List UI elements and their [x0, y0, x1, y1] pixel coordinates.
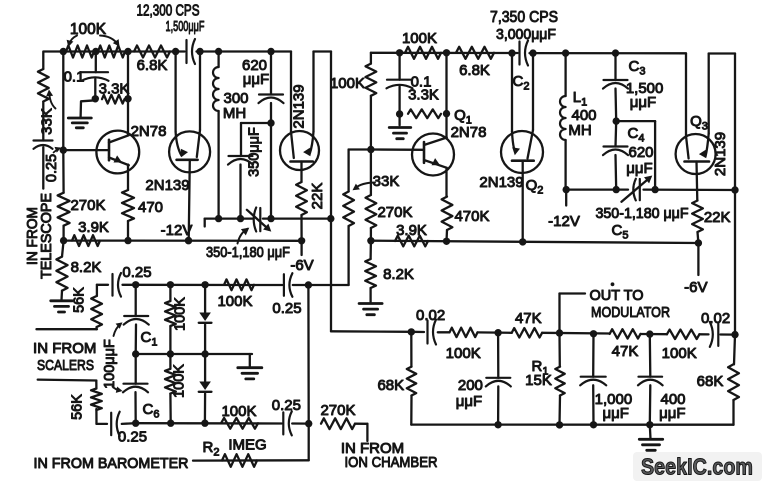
svg-text:2N139: 2N139 — [291, 84, 308, 128]
svg-text:33K: 33K — [373, 173, 400, 190]
svg-text:6.8K: 6.8K — [137, 57, 168, 74]
svg-text:6.8K: 6.8K — [459, 62, 490, 79]
svg-text:IN FROM BAROMETER: IN FROM BAROMETER — [34, 455, 189, 472]
svg-text:μμF: μμF — [626, 160, 652, 177]
svg-text:15K: 15K — [525, 372, 552, 389]
svg-text:μμF: μμF — [602, 405, 628, 422]
svg-text:3.9K: 3.9K — [78, 219, 109, 236]
svg-text:100K: 100K — [70, 21, 107, 38]
svg-text:470: 470 — [138, 199, 163, 216]
svg-text:56K: 56K — [72, 287, 88, 313]
svg-text:C3: C3 — [629, 58, 646, 78]
svg-text:2N139: 2N139 — [145, 177, 189, 194]
svg-text:470K: 470K — [454, 208, 489, 225]
svg-text:8.2K: 8.2K — [383, 266, 414, 283]
svg-text:1,500μμF: 1,500μμF — [166, 19, 205, 35]
svg-text:620: 620 — [628, 144, 653, 161]
svg-text:IMEG: IMEG — [228, 437, 266, 454]
svg-text:0.02: 0.02 — [416, 307, 445, 324]
svg-text:C2: C2 — [513, 73, 530, 93]
svg-text:-12V: -12V — [548, 213, 580, 230]
svg-text:SCALERS: SCALERS — [37, 357, 94, 374]
svg-text:C5: C5 — [612, 222, 629, 242]
svg-text:100μμF: 100μμF — [102, 339, 118, 389]
svg-text:3.3K: 3.3K — [408, 87, 439, 104]
svg-text:100K: 100K — [662, 345, 697, 362]
svg-text:μμF: μμF — [659, 405, 685, 422]
svg-text:-12V: -12V — [161, 222, 193, 239]
svg-text:MH: MH — [568, 122, 591, 139]
svg-text:0.25: 0.25 — [272, 397, 301, 414]
svg-text:350-1,180 μμF: 350-1,180 μμF — [206, 245, 290, 261]
svg-text:C4: C4 — [628, 125, 645, 145]
svg-text:8.2K: 8.2K — [71, 259, 102, 276]
svg-text:0.25: 0.25 — [44, 154, 60, 182]
svg-text:3.3K: 3.3K — [99, 81, 130, 98]
svg-text:R2: R2 — [203, 439, 220, 459]
svg-text:7,350 CPS: 7,350 CPS — [490, 9, 558, 26]
svg-text:270K: 270K — [70, 197, 105, 214]
svg-text:100K: 100K — [172, 364, 188, 398]
svg-text:0.25: 0.25 — [122, 264, 151, 281]
svg-text:68K: 68K — [377, 377, 404, 394]
svg-text:350μμF: 350μμF — [247, 127, 263, 177]
svg-text:100K: 100K — [402, 30, 437, 47]
svg-text:100K: 100K — [221, 403, 256, 420]
svg-text:-6V: -6V — [290, 257, 313, 274]
svg-text:3.9K: 3.9K — [396, 222, 427, 239]
svg-text:-6V: -6V — [684, 279, 707, 296]
svg-text:100K: 100K — [446, 345, 481, 362]
svg-text:μμF: μμF — [456, 393, 482, 410]
svg-text:33K: 33K — [39, 108, 56, 135]
svg-text:68K: 68K — [697, 373, 724, 390]
svg-text:200: 200 — [458, 377, 483, 394]
svg-text:47K: 47K — [515, 310, 542, 327]
svg-text:ION CHAMBER: ION CHAMBER — [345, 454, 438, 471]
svg-text:L1: L1 — [573, 89, 587, 109]
svg-text:2N78: 2N78 — [131, 123, 167, 140]
svg-text:2N139: 2N139 — [712, 132, 729, 176]
svg-text:350-1,180 μμF: 350-1,180 μμF — [596, 206, 689, 222]
svg-text:2N139: 2N139 — [479, 174, 523, 191]
svg-text:3,000μμF: 3,000μμF — [496, 26, 556, 43]
svg-text:22K: 22K — [309, 183, 326, 210]
svg-text:2N78: 2N78 — [451, 124, 487, 141]
svg-text:MODULATOR: MODULATOR — [591, 304, 670, 321]
svg-text:TELESCOPE: TELESCOPE — [39, 193, 55, 279]
svg-text:0.1: 0.1 — [64, 69, 85, 86]
svg-text:μμF: μμF — [243, 71, 269, 88]
svg-text:0.25: 0.25 — [118, 429, 147, 446]
svg-text:100K: 100K — [217, 293, 252, 310]
svg-text:IN FROM: IN FROM — [33, 340, 96, 357]
svg-text:100K: 100K — [330, 75, 365, 92]
svg-text:47K: 47K — [612, 343, 639, 360]
svg-text:Q3: Q3 — [690, 113, 708, 133]
svg-text:22K: 22K — [704, 209, 731, 226]
svg-text:μμF: μμF — [630, 94, 656, 111]
svg-text:0.25: 0.25 — [272, 300, 301, 317]
svg-text:270K: 270K — [377, 204, 412, 221]
svg-text:56K: 56K — [69, 394, 85, 420]
svg-text:0.02: 0.02 — [701, 310, 730, 327]
svg-text:Q2: Q2 — [526, 177, 544, 197]
svg-text:MH: MH — [223, 105, 246, 122]
svg-text:C1: C1 — [141, 329, 158, 349]
svg-text:270K: 270K — [320, 402, 355, 419]
svg-text:SeekIC.com: SeekIC.com — [641, 454, 753, 480]
svg-text:12,300 CPS: 12,300 CPS — [137, 3, 200, 20]
svg-text:OUT TO: OUT TO — [590, 287, 644, 304]
svg-text:100K: 100K — [172, 297, 188, 331]
svg-text:C6: C6 — [143, 401, 160, 421]
